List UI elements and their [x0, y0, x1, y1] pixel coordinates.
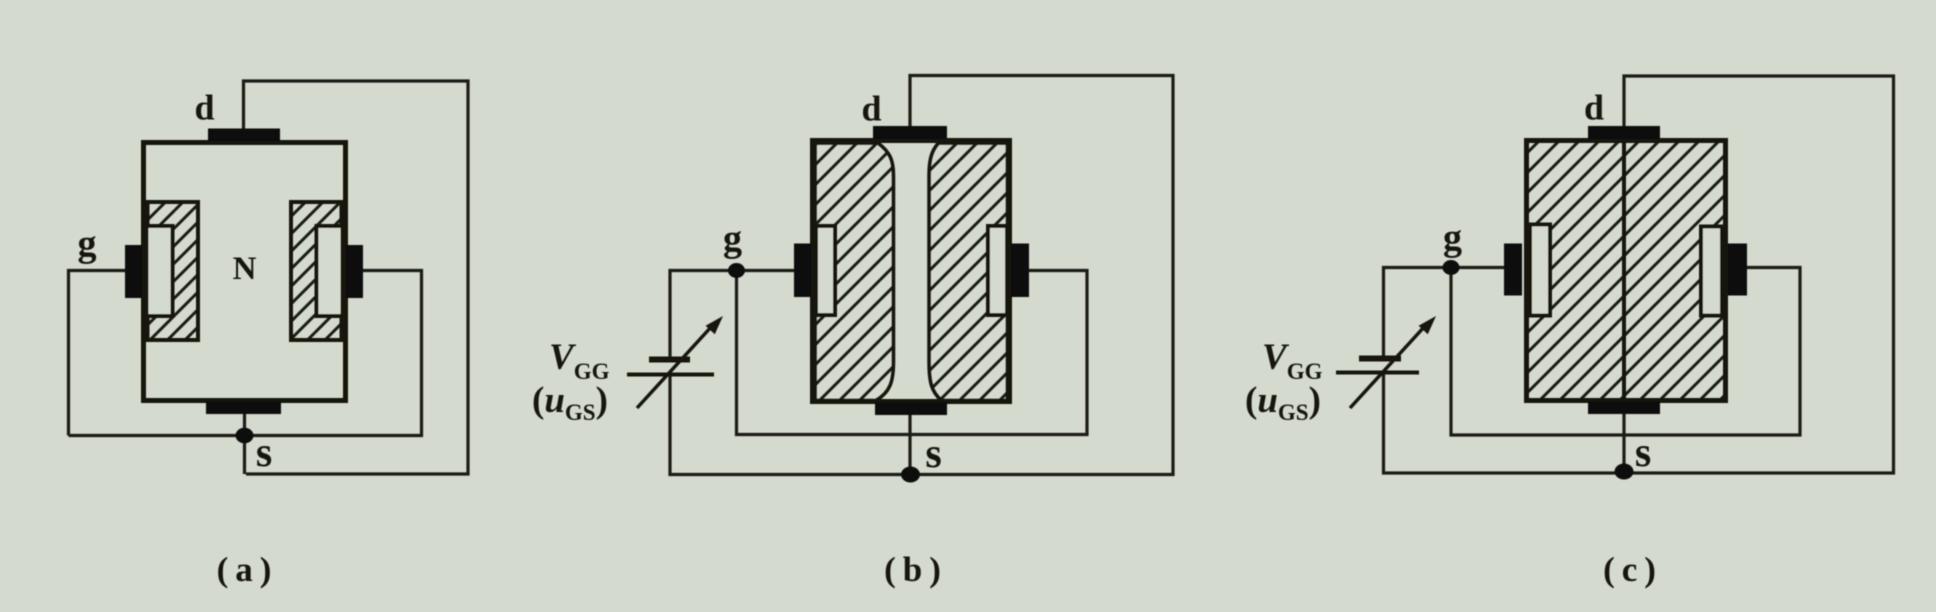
variable-source arrow shaft (b): [637, 326, 712, 408]
gate contact right (a): [346, 245, 363, 298]
svg-text:g: g: [1443, 217, 1462, 259]
wire: gate loop (c) from g node down, across, up to right gate contact: [1451, 268, 1800, 436]
gate contact left (c): [1504, 244, 1522, 296]
svg-text:g: g: [723, 218, 742, 260]
node: gate junction dot (c): [1443, 260, 1460, 275]
wire: drain loop (a) d-contact up, right, down right side, bottom to source node: [244, 81, 469, 474]
gate contact right (c): [1728, 244, 1747, 296]
variable-source arrow head (c): [1419, 316, 1436, 334]
source contact bar (c): [1588, 402, 1660, 415]
gate electrode right (c) white box: [1701, 227, 1722, 316]
svg-text:g: g: [78, 223, 97, 265]
gate electrode left (b) white box: [816, 226, 835, 315]
gate contact left (b): [794, 244, 811, 298]
variable-source arrow head (b): [706, 316, 723, 334]
wire: gate loop bottom (a) across to right vertical up to right gate contact: [69, 271, 422, 436]
gate electrode right (b) white box: [988, 226, 1007, 315]
svg-text:d: d: [194, 88, 214, 128]
transistor body (c) fully depleted hatched bar: [1527, 141, 1726, 401]
wire: drain loop (b) d-contact up, right, down, bottom line to VGG negative terminal: [670, 76, 1173, 475]
wire: VGG positive terminal up to gate node corner and to gate contact (b): [670, 271, 795, 360]
svg-text:s: s: [925, 431, 941, 477]
svg-text:d: d: [861, 89, 881, 129]
variable-source arrow shaft (c): [1350, 326, 1425, 408]
svg-text:(a): (a): [217, 550, 279, 589]
battery VGG short negative plate (c): [1359, 356, 1401, 362]
gate region left (a) hatched P+ block: [148, 202, 199, 340]
battery VGG long positive plate (b): [627, 373, 714, 377]
svg-text:(b): (b): [884, 550, 948, 589]
drain contact bar (b): [873, 126, 947, 139]
svg-text:(c): (c): [1603, 550, 1663, 589]
svg-text:N: N: [233, 251, 257, 287]
depletion region right (b) hatched: [929, 143, 1008, 401]
battery VGG long positive plate (c): [1336, 371, 1419, 375]
node: source junction dot (c): [1615, 464, 1634, 480]
transistor body (b) bar outline: [813, 141, 1010, 402]
wire: gate lead (a) from g label corner to left gate contact: [69, 271, 127, 436]
drain contact bar (c): [1588, 126, 1660, 139]
wire: VGG positive terminal up to gate node corner and to gate contact (c): [1384, 268, 1506, 359]
wire: source lead (a) from s-contact down through node: [243, 413, 246, 474]
gate contact left (a): [125, 245, 142, 298]
node: source junction dot (b): [901, 467, 920, 483]
node: gate junction dot (b): [728, 263, 745, 278]
gate electrode left (c) white box: [1530, 225, 1550, 316]
node: source junction dot (a): [236, 428, 254, 444]
drain contact bar (a): [208, 129, 280, 142]
wire: gate loop (b) from g node down, across, up to right gate contact: [737, 271, 1088, 435]
gate region right (a) hatched P+ block: [291, 202, 342, 340]
wire: drain loop (c) d-contact up, right, down, bottom line to VGG negative terminal: [1384, 76, 1894, 473]
wire: source lead (c) from s-contact down to bottom line: [1622, 413, 1625, 473]
battery VGG short negative plate (b): [649, 357, 690, 363]
svg-text:d: d: [1584, 88, 1604, 128]
transistor body (a) N-channel bar: [144, 143, 346, 401]
gate contact right (b): [1011, 244, 1029, 298]
gate electrode left (a) white box: [147, 226, 173, 316]
svg-text:s: s: [256, 430, 272, 476]
gate electrode right (a) white box: [317, 226, 343, 316]
svg-text:s: s: [1635, 430, 1651, 476]
source contact bar (b): [875, 403, 947, 416]
depletion region left (b) hatched: [815, 143, 894, 401]
source contact bar (a): [206, 402, 281, 415]
channel centre boundary line (c): [1622, 141, 1626, 400]
wire: source lead (b) from s-contact down to bottom line: [908, 415, 911, 475]
